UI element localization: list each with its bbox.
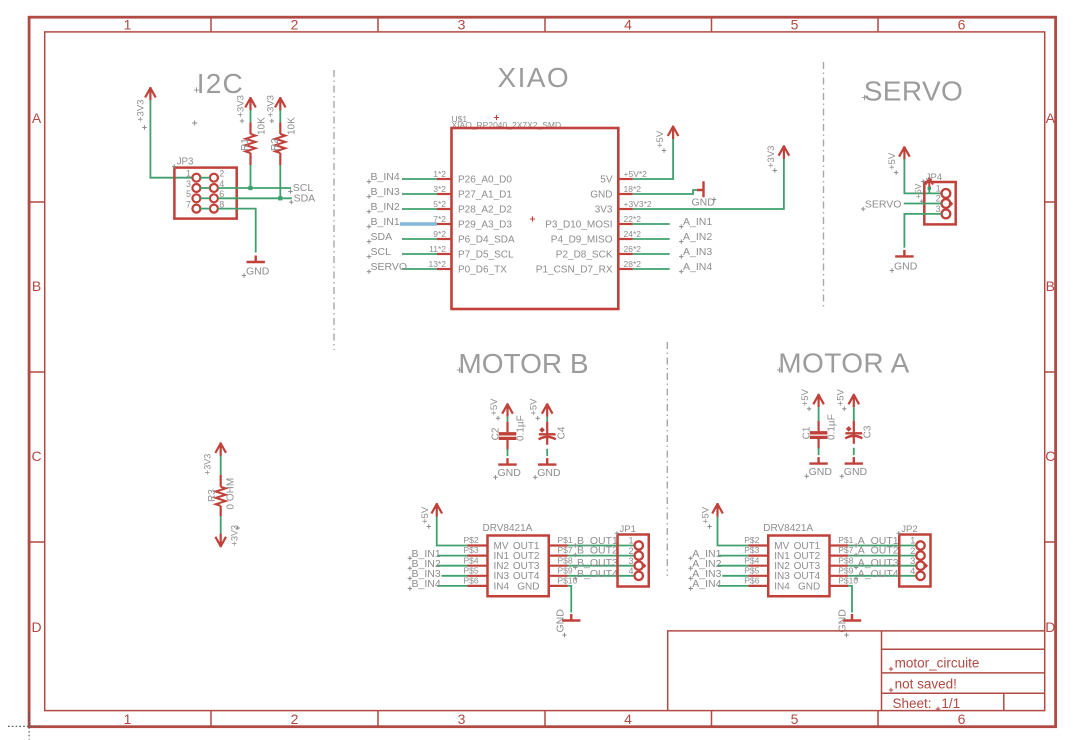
DRV left pin stub P$5 (468, 575, 488, 577)
label +5V small origin cross (920, 199, 924, 203)
svg-text:P$2: P$2 (464, 535, 479, 545)
label +5V C4 origin cross (536, 416, 540, 420)
label +5V DRV JP2 origin cross (707, 524, 711, 528)
svg-text:GND: GND (837, 609, 849, 633)
svg-text:P3_D10_MOSI: P3_D10_MOSI (545, 220, 612, 231)
label GND C4 origin cross (533, 475, 537, 479)
svg-text:0.1µF: 0.1µF (516, 415, 527, 441)
JP3 pin circle 4 (210, 184, 218, 192)
svg-text:DRV8421A: DRV8421A (483, 523, 533, 534)
supply +5V arrow JP2 DRV (712, 503, 723, 517)
separator MOTORB/MOTORA (666, 342, 668, 576)
wire B_IN3 (442, 575, 468, 577)
wire A_OUT1 (848, 545, 916, 547)
JP3 pin circle 7 (192, 205, 200, 213)
svg-text:P$4: P$4 (744, 555, 759, 565)
wire A_IN4 (633, 268, 670, 270)
IC U1 body (452, 128, 619, 309)
svg-text:C: C (1045, 448, 1055, 464)
svg-text:2: 2 (910, 546, 915, 556)
svg-text:IN4: IN4 (774, 581, 790, 592)
JP3 pin circle 8 (210, 205, 218, 213)
net label A_IN4 origin cross (679, 269, 683, 273)
svg-text:JP4: JP4 (926, 172, 942, 183)
wire A_IN3 (633, 253, 670, 255)
svg-text:+5V: +5V (913, 183, 923, 199)
DRV left pin stub P$3 (468, 554, 488, 556)
svg-text:GND: GND (844, 466, 868, 478)
wire C1 top (818, 407, 820, 420)
JP3 internal wire row2 (200, 187, 210, 189)
svg-text:+3V3: +3V3 (136, 100, 147, 122)
title block row line 2 (882, 672, 1045, 674)
supply +3V3 arrow R3 bottom (down) (215, 534, 226, 548)
title block divider vertical (881, 631, 883, 711)
svg-text:GND: GND (517, 581, 539, 592)
svg-text:XIAO: XIAO (498, 62, 571, 93)
supply +5V arrow C1 (813, 394, 824, 408)
XIAO left pin stub 11*2 (437, 253, 452, 255)
svg-text:P26_A0_D0: P26_A0_D0 (458, 175, 512, 186)
svg-text:7: 7 (186, 199, 191, 209)
net label B_IN1 origin cross (408, 556, 412, 560)
svg-text:18*2: 18*2 (624, 184, 642, 194)
title MOTOR A origin cross (777, 367, 782, 372)
DRV left pin stub P$6 (468, 585, 488, 587)
label GND XIAO origin cross (712, 197, 716, 201)
net label B_OUT1 origin cross (573, 543, 577, 547)
wire A_OUT4 (848, 575, 916, 577)
net label B_IN2 origin cross (367, 209, 371, 213)
net label A_IN3 origin cross (688, 576, 692, 580)
ground symbol C1 (809, 457, 827, 464)
svg-text:+5V: +5V (529, 398, 540, 416)
svg-text:5: 5 (791, 17, 799, 33)
svg-text:0 OHM: 0 OHM (226, 478, 237, 510)
wire +5V to JP4 pin1 (904, 159, 941, 193)
net label A_OUT4 origin cross (854, 576, 858, 580)
svg-text:0.1µF: 0.1µF (827, 414, 838, 440)
svg-text:1: 1 (124, 17, 132, 33)
wire A_OUT2 (848, 555, 916, 557)
svg-text:P$3: P$3 (744, 545, 759, 555)
svg-text:4: 4 (910, 566, 915, 576)
svg-text:5: 5 (186, 189, 191, 199)
svg-text:1*2: 1*2 (433, 169, 446, 179)
junction R2/SDA (278, 196, 282, 200)
svg-text:4: 4 (629, 566, 634, 576)
supply +5V arrow C4 (542, 403, 553, 417)
svg-text:D: D (31, 619, 41, 635)
svg-text:motor_circuite: motor_circuite (895, 656, 980, 671)
label +5V C3 origin cross (842, 407, 846, 411)
supply +5V arrow JP1 DRV (431, 503, 442, 517)
label GND C1 origin cross (804, 474, 808, 478)
IC DRV8421A body (768, 536, 829, 597)
svg-text:P$8: P$8 (838, 555, 853, 565)
wire A_IN2 (718, 565, 748, 567)
supply +5V small arrow at JP4 pin1 (926, 177, 933, 187)
svg-text:IN4: IN4 (494, 581, 510, 592)
IC U1 center cross (530, 216, 535, 221)
DRV right pin stub P$7 (549, 554, 568, 556)
DRV right pin stub P$1 (830, 544, 849, 546)
wire A_IN4 (718, 585, 748, 587)
label GND DRV origin cross (844, 633, 848, 637)
svg-text:3: 3 (458, 711, 466, 727)
label +5V C1 origin cross (807, 407, 811, 411)
svg-text:SDA: SDA (371, 231, 393, 243)
label JP4 origin cross (921, 179, 925, 183)
label GND C3 origin cross (840, 474, 844, 478)
svg-text:2: 2 (291, 711, 299, 727)
JP1 pin circle 2 (635, 551, 643, 559)
wire SCL (402, 253, 437, 255)
wire B_OUT1 (568, 545, 635, 547)
svg-text:GND: GND (894, 260, 918, 272)
svg-text:11*2: 11*2 (429, 244, 446, 254)
net label SCL origin cross (367, 254, 371, 258)
svg-text:+5V: +5V (887, 152, 898, 170)
svg-text:A_OUT4: A_OUT4 (858, 568, 899, 580)
svg-text:C3: C3 (862, 425, 873, 438)
svg-text:SERVO: SERVO (865, 199, 902, 211)
JP4 pin circle 3 (942, 210, 951, 219)
svg-text:SCL: SCL (371, 246, 392, 258)
frame row ticks right (1045, 202, 1056, 542)
JP3 internal wire row3 (200, 197, 210, 199)
net label A_OUT3 origin cross (854, 565, 858, 569)
supply +5V arrow C3 (849, 394, 860, 408)
svg-text:P27_A1_D1: P27_A1_D1 (458, 190, 512, 201)
svg-text:P0_D6_TX: P0_D6_TX (458, 265, 507, 276)
svg-text:JP3: JP3 (177, 157, 194, 168)
wire B_OUT2 (568, 555, 635, 557)
wire R1 top (250, 110, 252, 123)
svg-text:3: 3 (458, 17, 466, 33)
svg-text:MOTOR B: MOTOR B (458, 348, 588, 379)
XIAO right pin stub +5V*2 (618, 178, 633, 180)
label +3V3 R3 bottom origin cross (236, 526, 240, 530)
net label SERVO origin cross (861, 207, 865, 211)
supply +5V arrow C2 (502, 403, 513, 417)
svg-text:26*2: 26*2 (624, 244, 642, 254)
JP1 pin circle 4 (635, 572, 643, 580)
svg-text:P$5: P$5 (464, 565, 479, 575)
supply +5V arrow SERVO (899, 146, 910, 160)
svg-text:GND: GND (590, 190, 612, 201)
svg-text:A_OUT2: A_OUT2 (858, 545, 899, 557)
svg-text:B: B (1046, 278, 1055, 294)
net label B_IN4 origin cross (367, 179, 371, 183)
wire A_IN1 (633, 223, 670, 225)
wire JP3 pin8 to GND (218, 209, 256, 253)
JP3 pin circle 5 (192, 194, 200, 202)
svg-text:SERVO: SERVO (864, 76, 964, 107)
XIAO left pin stub 5*2 (437, 208, 452, 210)
svg-text:2: 2 (629, 546, 634, 556)
svg-text:B: B (32, 278, 41, 294)
XIAO left pin stub 1*2 (437, 178, 452, 180)
svg-text:C1: C1 (801, 426, 812, 439)
svg-text:P1_CSN_D7_RX: P1_CSN_D7_RX (536, 265, 613, 276)
capacitor C2 0.1µF (506, 422, 508, 433)
label SDA origin cross (289, 200, 293, 204)
svg-text:SDA: SDA (294, 192, 316, 204)
DRV left pin stub P$4 (468, 565, 488, 567)
JP4 pin circle 1 (942, 189, 951, 198)
separator I2C/XIAO (333, 70, 335, 350)
ground symbol DRV (562, 614, 580, 621)
label JP2 origin cross (897, 531, 901, 535)
resistor R1 (249, 123, 251, 135)
title block sheet cell divider (1003, 693, 1005, 710)
capacitor C3 polarized (853, 421, 855, 444)
title MOTOR B origin cross (457, 367, 462, 372)
svg-text:P29_A3_D3: P29_A3_D3 (458, 220, 512, 231)
svg-text:SERVO: SERVO (371, 261, 408, 273)
wire R2 bottom (279, 165, 281, 198)
junction R1/SCL (248, 186, 252, 190)
resistor R2 supply +3V3 arrow (275, 97, 286, 111)
title block row line 1 (882, 648, 1045, 650)
svg-text:not saved!: not saved! (895, 676, 957, 691)
svg-text:+3V3: +3V3 (236, 95, 247, 117)
connector JP3 outline (174, 168, 236, 219)
wire GND XIAO (633, 190, 697, 194)
wire SCL (218, 187, 291, 189)
capacitor C1 0.1µF (817, 421, 819, 432)
svg-text:6: 6 (958, 17, 966, 33)
svg-text:GND: GND (498, 467, 522, 479)
supply +3V3 arrow XIAO (779, 145, 790, 159)
svg-text:GND: GND (555, 609, 567, 633)
XIAO left pin stub 13*2 (437, 268, 452, 270)
svg-text:22*2: 22*2 (624, 214, 642, 224)
wire C2 top (507, 417, 509, 422)
net label B_IN4 origin cross (408, 586, 412, 590)
label GND DRV origin cross (562, 633, 566, 637)
DRV left pin stub P$6 (748, 585, 768, 587)
wire B_IN1 highlighted blue (400, 222, 437, 226)
wire B_OUT3 (568, 565, 635, 567)
title block motor_circuite origin cross (889, 667, 893, 671)
svg-text:1: 1 (910, 536, 915, 546)
JP3 part origin cross (192, 120, 197, 125)
JP3 internal wire row1 (200, 177, 210, 179)
title I2C origin cross (194, 87, 199, 92)
JP2 origin diamond (923, 563, 928, 568)
svg-text:P7_D5_SCL: P7_D5_SCL (458, 250, 514, 261)
XIAO left pin stub 7*2 (437, 223, 452, 225)
DRV left pin stub P$2 (748, 544, 768, 546)
JP4 pin circle 2 (942, 199, 951, 208)
svg-text:9*2: 9*2 (433, 229, 446, 239)
JP2 pin circle 1 (916, 541, 924, 549)
svg-text:MOTOR A: MOTOR A (778, 347, 909, 378)
wire C3 top (853, 407, 855, 420)
JP3 pin circle 1 (192, 174, 200, 182)
svg-text:10K: 10K (257, 117, 268, 135)
connector JP1 outline (618, 535, 649, 587)
svg-text:P$3: P$3 (464, 545, 479, 555)
ground symbol DRV (843, 614, 861, 621)
label JP1 origin cross (615, 531, 619, 535)
resistor R3 0 OHM (220, 475, 222, 487)
wire R3 top (220, 456, 222, 475)
svg-text:+5V: +5V (701, 506, 712, 524)
svg-text:+5V*2: +5V*2 (624, 169, 648, 179)
wire A_IN2 (633, 238, 670, 240)
resistor R1 supply +3V3 arrow (245, 97, 256, 111)
DRV right pin stub P$1 (549, 544, 568, 546)
svg-text:A_IN2: A_IN2 (683, 231, 712, 243)
svg-text:3*2: 3*2 (433, 184, 446, 194)
wire A_IN1 (718, 555, 748, 557)
svg-text:B_IN2: B_IN2 (371, 201, 400, 213)
svg-text:P$4: P$4 (464, 555, 479, 565)
net label B_IN3 origin cross (367, 194, 371, 198)
net label A_OUT1 origin cross (854, 543, 858, 547)
svg-text:B_IN3: B_IN3 (371, 186, 400, 198)
label +3V3 left origin cross (142, 125, 146, 129)
wire 5V to +5V (633, 137, 673, 179)
svg-text:P$6: P$6 (744, 576, 759, 586)
DRV right pin stub P$10 (549, 585, 568, 587)
svg-text:P$9: P$9 (558, 565, 573, 575)
JP3 pin circle 3 (192, 184, 200, 192)
frame row ticks left (29, 202, 45, 542)
ground symbol C3 (845, 457, 863, 464)
wire 3V3 to +3V3 (633, 157, 784, 209)
svg-text:C: C (31, 448, 41, 464)
DRV left pin stub P$3 (748, 554, 768, 556)
JP3 pin circle 6 (210, 194, 218, 202)
label +3V3 R2 origin cross (270, 119, 274, 123)
svg-text:2: 2 (291, 17, 299, 33)
svg-text:P$6: P$6 (464, 576, 479, 586)
wire B_IN2 (437, 565, 467, 567)
net label B_OUT4 origin cross (573, 576, 577, 580)
svg-text:D: D (1045, 619, 1055, 635)
svg-text:Sheet:: Sheet: (893, 696, 932, 711)
wire C4 top (546, 417, 548, 422)
IC U1 origin cross (494, 115, 499, 120)
svg-text:GND: GND (692, 197, 716, 209)
label +3V3 XIAO origin cross (773, 168, 777, 172)
JP3 internal wire row4 (200, 208, 210, 210)
net label B_OUT3 origin cross (573, 565, 577, 569)
XIAO right pin stub 28*2 (618, 268, 633, 270)
wire B_IN4 (402, 178, 437, 180)
JP2 pin circle 3 (916, 562, 924, 570)
JP1 pin circle 1 (635, 541, 643, 549)
svg-text:+5V: +5V (655, 130, 666, 148)
svg-text:3: 3 (910, 556, 915, 566)
wire C4 bottom (546, 449, 548, 456)
wire R1 bottom (250, 165, 252, 188)
svg-text:P$10: P$10 (558, 576, 578, 586)
svg-text:P$5: P$5 (744, 565, 759, 575)
net label A_OUT2 origin cross (854, 553, 858, 557)
label +5V SERVO origin cross (894, 170, 898, 174)
svg-text:A_IN4: A_IN4 (692, 578, 721, 590)
svg-text:+5V: +5V (420, 506, 431, 524)
connector JP4 outline (924, 182, 955, 224)
title block row line 3 (882, 692, 1045, 694)
svg-text:3: 3 (186, 179, 191, 189)
ground symbol I2C (247, 256, 265, 263)
XIAO right pin stub +3V3*2 (618, 208, 633, 210)
svg-text:A: A (32, 110, 42, 126)
JP3 pin circle 2 (210, 174, 218, 182)
svg-text:R2: R2 (270, 138, 281, 151)
supply +3V3 arrow R3 top (215, 442, 226, 456)
svg-text:P28_A2_D2: P28_A2_D2 (458, 205, 512, 216)
svg-text:1: 1 (936, 184, 941, 194)
svg-text:+3V3: +3V3 (766, 146, 777, 168)
wire P$10 to GND (568, 586, 572, 613)
JP2 pin circle 4 (916, 572, 924, 580)
XIAO left pin stub 3*2 (437, 193, 452, 195)
XIAO left pin stub 9*2 (437, 238, 452, 240)
label +5V XIAO origin cross (662, 148, 666, 152)
title block outline (668, 631, 1045, 711)
svg-text:P$1: P$1 (558, 535, 573, 545)
svg-text:5*2: 5*2 (433, 199, 446, 209)
label +3V3 R1 origin cross (240, 119, 244, 123)
wire R2 top (279, 110, 281, 123)
svg-text:B_IN1: B_IN1 (371, 216, 400, 228)
svg-text:+3V3*2: +3V3*2 (624, 199, 652, 209)
XIAO right pin stub 18*2 (618, 193, 633, 195)
DRV left pin stub P$2 (468, 544, 488, 546)
svg-text:10K: 10K (286, 117, 297, 135)
wire R3 bottom (220, 516, 222, 535)
svg-text:2: 2 (219, 169, 224, 179)
connector JP2 outline (899, 535, 930, 587)
separator XIAO/SERVO (823, 62, 825, 309)
svg-text:P2_D8_SCK: P2_D8_SCK (556, 250, 613, 261)
net label B_IN2 origin cross (408, 566, 412, 570)
svg-text:2: 2 (936, 194, 941, 204)
svg-text:+3V3: +3V3 (265, 95, 276, 117)
net label B_OUT2 origin cross (573, 553, 577, 557)
svg-text:P$10: P$10 (838, 576, 858, 586)
label GND C2 origin cross (493, 475, 497, 479)
svg-text:R3: R3 (207, 489, 218, 502)
frame column ticks top (211, 17, 878, 32)
wire C2 bottom (507, 449, 509, 456)
svg-text:P$7: P$7 (558, 545, 573, 555)
svg-text:P$9: P$9 (838, 565, 853, 575)
net label A_IN2 origin cross (679, 239, 683, 243)
svg-text:4: 4 (624, 711, 632, 727)
net label A_IN4 origin cross (688, 586, 692, 590)
svg-text:GND: GND (537, 467, 561, 479)
svg-text:B_OUT2: B_OUT2 (577, 545, 618, 557)
svg-text:+3V3: +3V3 (203, 454, 213, 475)
svg-text:5V: 5V (600, 175, 613, 186)
supply +5V arrow XIAO (668, 126, 679, 140)
label GND I2C origin cross (242, 273, 246, 277)
wire +5V to MV (718, 517, 749, 546)
svg-text:1: 1 (629, 536, 634, 546)
net label A_IN2 origin cross (688, 566, 692, 570)
svg-text:B_OUT4: B_OUT4 (577, 568, 618, 580)
svg-text:+5V: +5V (800, 388, 811, 406)
DRV right pin stub P$9 (549, 575, 568, 577)
